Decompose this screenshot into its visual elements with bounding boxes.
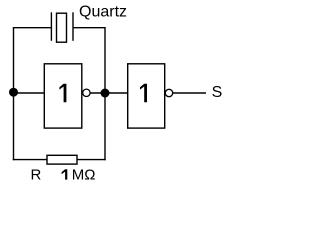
inverter U2 function label 1 bbox=[140, 84, 147, 103]
inverter U2 box bbox=[128, 64, 165, 128]
inverter U1 box bbox=[44, 64, 82, 128]
quartz crystal Q1 bbox=[51, 12, 73, 42]
inverter U1 function label 1 bbox=[59, 84, 66, 103]
resistor R bbox=[47, 155, 77, 164]
wire U2 output to S bbox=[173, 92, 206, 94]
wire bottom left segment bbox=[13, 159, 47, 161]
wire mid from left node to U1 input bbox=[14, 92, 45, 94]
inverter U2 output bubble bbox=[165, 89, 172, 96]
wire bottom right segment bbox=[77, 159, 106, 161]
svg-text:S: S bbox=[212, 84, 223, 101]
wire from quartz right plate to right rail bbox=[73, 27, 106, 29]
node A between inverters bbox=[101, 89, 110, 98]
node left (U1 input junction) bbox=[9, 88, 18, 97]
wire right vertical rail (quartz to node A and resistor) bbox=[104, 28, 106, 161]
svg-text:R: R bbox=[31, 166, 42, 183]
svg-text:Quartz: Quartz bbox=[79, 3, 127, 20]
label 1 MΩ : digit 1 bbox=[62, 169, 68, 179]
svg-text:MΩ: MΩ bbox=[72, 167, 96, 184]
wire from U1 bubble to U2 input bbox=[90, 92, 127, 94]
wire top from left rail to quartz bbox=[13, 27, 51, 29]
inverter U1 output bubble bbox=[83, 89, 90, 96]
wire left vertical (feedback rail) bbox=[13, 28, 15, 161]
